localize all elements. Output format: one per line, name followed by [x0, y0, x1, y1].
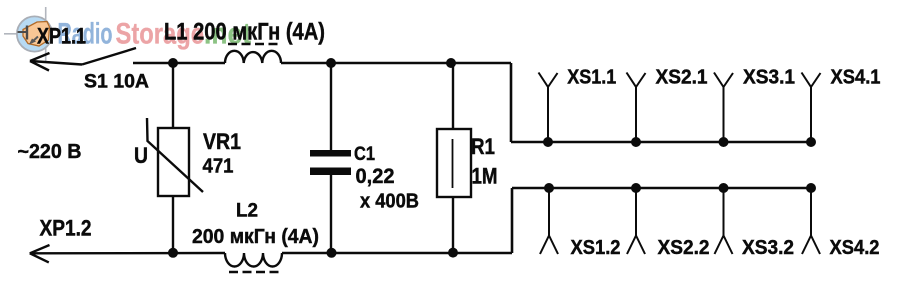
svg-text:XS1.2: XS1.2: [571, 237, 621, 259]
wire VR1 top: [172, 63, 174, 128]
svg-text:L1 200 мкГн (4А): L1 200 мкГн (4А): [164, 19, 325, 46]
switch S1 blade: [82, 48, 136, 65]
logo transistor emitter arrow: [32, 37, 39, 43]
node bottom C1: [327, 248, 337, 258]
node bus XS3.1: [719, 137, 729, 147]
svg-text:XP1.2: XP1.2: [40, 216, 92, 241]
svg-text:L2: L2: [236, 201, 258, 222]
wire C1 top: [330, 63, 332, 150]
socket XS2.2: [627, 188, 645, 254]
logo orange shape: [23, 22, 50, 47]
svg-text:0,22: 0,22: [356, 165, 395, 188]
svg-text:XP1.1: XP1.1: [37, 24, 86, 49]
svg-text:х 400В: х 400В: [360, 191, 419, 213]
node bus XS3.2: [719, 183, 729, 193]
socket XS3.1: [714, 73, 733, 143]
logo crosshair horizontal: [4, 33, 30, 35]
varistor VR1 body: [158, 128, 189, 196]
inductor L1 core dashes: [228, 43, 281, 46]
inductor L1: [225, 51, 281, 63]
svg-text:XS1.1: XS1.1: [567, 67, 616, 89]
wire R1 bottom: [452, 197, 454, 253]
node bottom VR1: [168, 248, 178, 258]
socket XS4.1: [802, 73, 821, 143]
node top C1: [326, 58, 336, 68]
inductor L2 core dashes: [229, 271, 282, 274]
wire bottom right corner up: [511, 188, 514, 253]
node top VR1: [168, 58, 178, 68]
wire R1 top: [452, 63, 454, 129]
node bottom R1: [448, 248, 458, 258]
wire top right corner down: [510, 63, 513, 142]
svg-text:200 мкГн (4А): 200 мкГн (4А): [192, 225, 319, 248]
svg-text:VR1: VR1: [203, 129, 241, 154]
socket XS4.2: [802, 188, 820, 254]
connector XP1.1 arrow: [30, 53, 82, 71]
node bus XS2.1: [631, 137, 641, 147]
svg-text:XS2.1: XS2.1: [656, 67, 708, 89]
resistor R1 body: [437, 129, 471, 197]
wire bottom bus: [512, 187, 811, 189]
svg-text:XS3.2: XS3.2: [742, 237, 794, 259]
varistor VR1 diagonal: [147, 118, 203, 192]
socket XS1.1: [539, 73, 558, 143]
svg-text:~220 В: ~220 В: [18, 141, 82, 163]
node bus XS1.1: [543, 137, 553, 147]
inductor L2: [225, 253, 282, 267]
socket XS1.2: [540, 188, 558, 254]
svg-text:U: U: [134, 143, 148, 168]
wire top middle segment: [281, 62, 511, 64]
wire VR1 bottom: [172, 196, 174, 253]
node bus XS2.2: [631, 183, 641, 193]
logo globe circle: [17, 16, 52, 51]
logo transistor base bar: [26, 26, 28, 40]
logo crosshair vertical: [45, 7, 47, 61]
wire C1 bottom: [330, 175, 332, 253]
node bus XS4.2: [806, 183, 816, 193]
capacitor C1 plate top: [310, 150, 351, 157]
connector XP1.2 arrow: [30, 245, 50, 262]
svg-text:XS2.2: XS2.2: [658, 237, 710, 259]
svg-text:1М: 1М: [472, 164, 498, 189]
wire top left segment: [133, 62, 225, 64]
svg-text:R1: R1: [471, 134, 495, 159]
wire top bus: [511, 141, 811, 143]
node bus XS4.1: [806, 137, 816, 147]
logo transistor base lead: [18, 31, 28, 33]
wire bottom left segment: [30, 252, 225, 255]
svg-text:XS4.1: XS4.1: [831, 67, 881, 89]
svg-text:471: 471: [203, 155, 234, 178]
socket XS3.2: [715, 188, 733, 254]
svg-text:XS3.1: XS3.1: [743, 67, 795, 89]
node bus XS1.2: [544, 183, 554, 193]
resistor R1 inner line: [452, 139, 454, 188]
capacitor C1 plate bottom: [310, 168, 351, 176]
svg-text:S1 10A: S1 10A: [84, 72, 149, 93]
node top R1: [446, 58, 456, 68]
svg-text:XS4.2: XS4.2: [830, 237, 880, 259]
wire bottom middle segment: [282, 252, 512, 254]
svg-text:C1: C1: [354, 144, 375, 165]
socket XS2.1: [627, 73, 646, 143]
